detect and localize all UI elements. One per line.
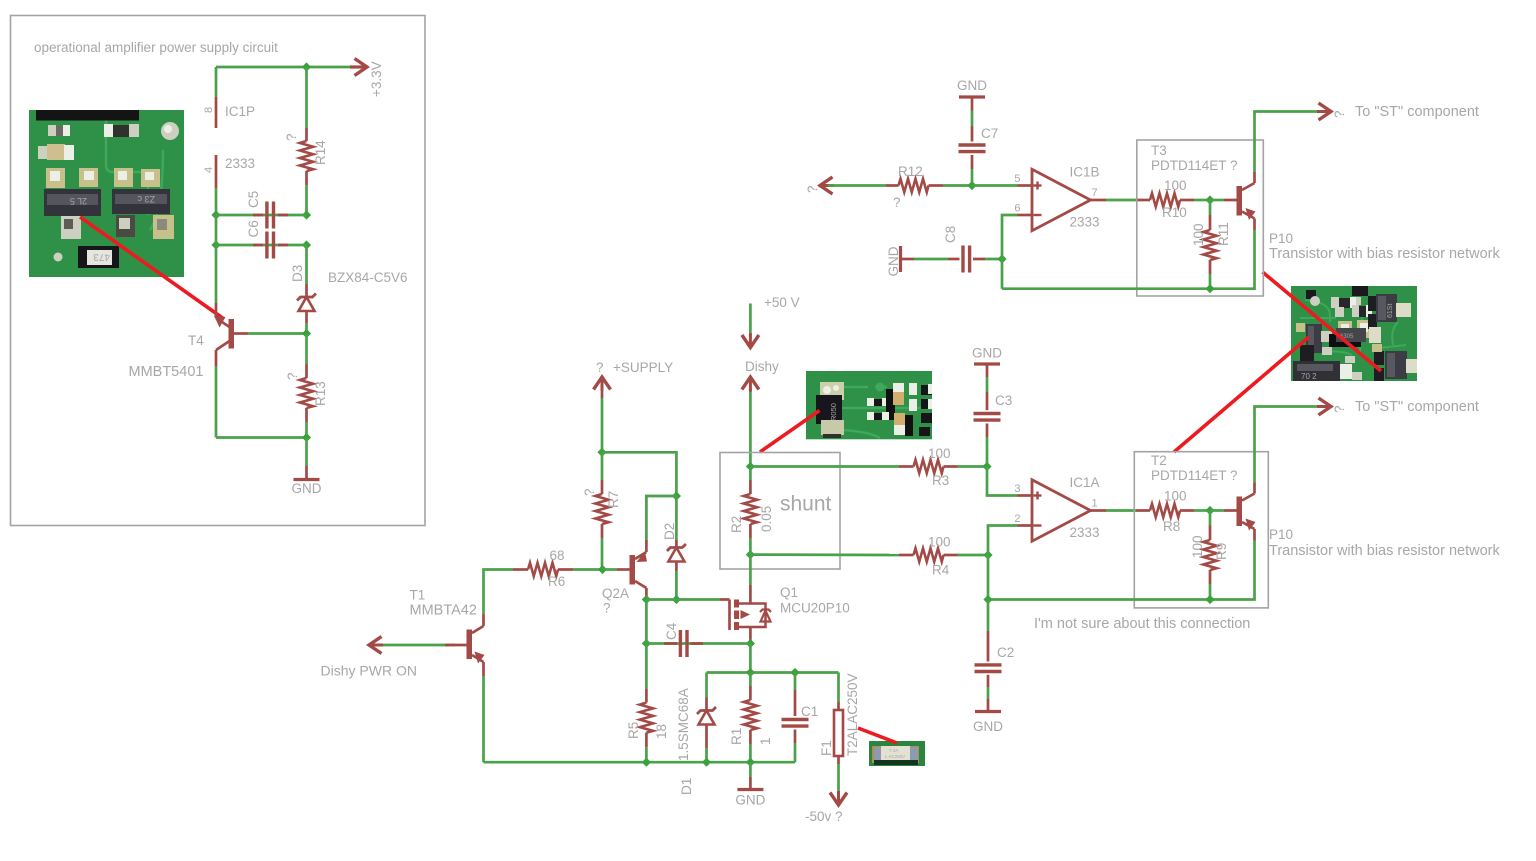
svg-text:D1: D1 — [679, 778, 694, 795]
arrow Dishy up — [742, 377, 759, 391]
red pointer line T2 box to photo4 — [1174, 337, 1309, 452]
wire T2 emitter rail — [988, 541, 1255, 600]
svg-text:3: 3 — [1014, 483, 1020, 495]
op-amp IC1B pin 5 stub — [1018, 184, 1033, 187]
svg-text:T4: T4 — [188, 333, 204, 348]
transistor T2 emitter lead — [1242, 522, 1255, 529]
resistor R8 body — [1150, 504, 1180, 517]
junction bottom rail R1 — [746, 758, 755, 767]
mosfet Q1 substrate arrow — [741, 610, 751, 619]
wire T1 collector to R6 — [484, 570, 514, 615]
fuse F1 body — [834, 710, 843, 756]
wire upper rail — [707, 671, 839, 674]
svg-text:GND: GND — [292, 481, 322, 496]
junction shunt bottom — [746, 550, 755, 559]
svg-text:IC1P: IC1P — [225, 104, 255, 119]
PCB photo inset 2 (shunt resistor R050) — [806, 371, 932, 439]
transistor T2 collector lead — [1242, 494, 1255, 501]
svg-text:6: 6 — [1014, 203, 1020, 215]
svg-text:2: 2 — [1014, 513, 1020, 525]
resistor R12 body — [899, 179, 929, 192]
capacitor C2 leads — [987, 600, 990, 632]
capacitor C5 plates — [265, 202, 268, 229]
wire Dishy PWR ON stub — [378, 644, 455, 647]
svg-text:100: 100 — [1164, 489, 1187, 504]
IC1A plus sign — [1034, 494, 1042, 496]
svg-text:?: ? — [285, 372, 300, 380]
junction C5 right — [302, 210, 311, 219]
resistor R2 leads — [749, 467, 752, 481]
svg-text:Z3 c: Z3 c — [137, 194, 155, 204]
wire T3 collector to ST — [1255, 112, 1321, 173]
svg-text:Dishy: Dishy — [745, 359, 779, 374]
svg-text:-50v ?: -50v ? — [805, 809, 843, 824]
svg-text:T 2A: T 2A — [889, 748, 898, 753]
mosfet Q1 drain-source outline — [739, 604, 766, 628]
svg-text:1: 1 — [1092, 498, 1098, 510]
wire C5 row — [216, 214, 307, 217]
IC1B minus sign — [1034, 214, 1042, 216]
mosfet Q1 gate lead — [720, 598, 730, 601]
ground symbol C2 bottom — [975, 710, 1001, 713]
svg-text:+SUPPLY: +SUPPLY — [613, 360, 673, 375]
svg-text:?: ? — [893, 195, 901, 210]
resistor R1 body — [744, 700, 757, 730]
junction R8 R9 node — [1205, 506, 1214, 515]
svg-text:1.5SMC68A: 1.5SMC68A — [676, 688, 691, 761]
zener diode D3 leads — [305, 245, 308, 284]
svg-text:8: 8 — [203, 107, 215, 113]
wire R4 node to pin2 — [988, 526, 1018, 556]
svg-text:100: 100 — [1190, 535, 1205, 558]
transistor Q2A emitter lead — [635, 552, 646, 559]
svg-text:P10: P10 — [1269, 231, 1293, 246]
svg-text:2333: 2333 — [1070, 215, 1100, 230]
mosfet Q1 body diode — [760, 610, 771, 613]
svg-text:F1: F1 — [819, 740, 834, 756]
wire Q1 source to upper rail — [749, 644, 752, 673]
junction C7 node — [967, 181, 976, 190]
svg-text:P10: P10 — [1269, 527, 1293, 542]
wire bottom of left box — [216, 436, 307, 439]
IC1A minus sign — [1034, 524, 1042, 526]
junction bottom rail D1 — [702, 758, 711, 767]
svg-text:100: 100 — [928, 535, 951, 550]
junction R7 top — [597, 448, 606, 457]
junction upper rail C1 — [790, 668, 799, 677]
svg-text:?: ? — [596, 360, 604, 375]
svg-text:R1: R1 — [729, 728, 744, 745]
red pointer line fuse to photo3 — [858, 728, 897, 743]
capacitor C3 leads — [986, 364, 989, 377]
wire Q2A collector down to C4 — [645, 600, 648, 644]
svg-text:2333: 2333 — [1070, 525, 1100, 540]
svg-text:T1: T1 — [410, 588, 426, 603]
svg-text:C5: C5 — [246, 191, 261, 208]
svg-text:GND: GND — [957, 78, 987, 93]
transistor T3 base bar — [1237, 186, 1243, 216]
junction R4 node — [983, 550, 992, 559]
ground symbol C3 top — [974, 362, 1000, 365]
svg-text:?: ? — [1332, 110, 1347, 118]
wire R6 node to Q2A base — [603, 568, 618, 571]
svg-text:PDTD114ET ?: PDTD114ET ? — [1151, 158, 1238, 173]
ground symbol left box — [294, 478, 320, 481]
red pointer line photo1 to T4 — [80, 217, 224, 319]
capacitor C8 plates — [961, 246, 964, 273]
zener diode D3 symbol — [297, 294, 316, 301]
svg-text:D3: D3 — [290, 265, 305, 282]
svg-text:R3: R3 — [932, 473, 949, 488]
wire R8 node to T2 base — [1210, 509, 1224, 512]
transistor T1 emitter arrow — [475, 652, 485, 664]
annotation box: shunt — [720, 453, 840, 570]
fuse F1 leads — [837, 673, 840, 703]
ground symbol C8 rotated — [899, 246, 902, 272]
svg-text:GND: GND — [972, 346, 1002, 361]
transistor T2 emitter arrow — [1246, 519, 1256, 531]
transistor T4 collector lead — [216, 341, 230, 350]
wire R10 node to T3 base — [1210, 199, 1224, 202]
resistor R10 body — [1150, 193, 1180, 206]
svg-text:?: ? — [805, 185, 820, 193]
svg-text:R5: R5 — [626, 722, 641, 739]
resistor R9 leads — [1209, 511, 1212, 526]
wire T4 base to R13 rail — [248, 332, 307, 335]
capacitor C8 leads — [901, 258, 915, 261]
resistor R11 body — [1203, 230, 1216, 260]
wire T4 emitter drop — [215, 245, 218, 303]
transistor T3 emitter lead — [1242, 212, 1255, 219]
wire C3 node to pin3 — [987, 467, 1018, 496]
junction C6 left — [211, 240, 220, 249]
supply arrow ? +SUPPLY — [594, 377, 611, 391]
svg-text:R6: R6 — [548, 574, 565, 589]
svg-text:C1: C1 — [801, 704, 818, 719]
wire +50V stub — [749, 304, 752, 334]
junction R9 bottom node — [1205, 595, 1214, 604]
transistor T3 emitter arrow — [1246, 208, 1256, 220]
svg-text:R9: R9 — [1214, 543, 1229, 560]
PCB photo inset 1 (transistors T4) — [29, 110, 184, 277]
svg-text:2L 5: 2L 5 — [70, 196, 87, 206]
resistor R10 leads — [1136, 199, 1150, 202]
resistor R7 leads — [601, 452, 604, 480]
zener diode D1 symbol — [697, 707, 716, 714]
wire T1 emitter to bottom rail — [482, 676, 485, 762]
svg-text:L AC250V: L AC250V — [885, 754, 905, 759]
transistor Q2A base bar — [630, 555, 636, 585]
resistor R5 body — [640, 703, 653, 733]
svg-text:GND: GND — [735, 793, 765, 808]
svg-text:4: 4 — [203, 167, 215, 173]
svg-text:?: ? — [603, 601, 611, 616]
svg-text:18: 18 — [654, 724, 669, 739]
capacitor C7 plates — [959, 143, 986, 146]
wire cap rail left vertical — [215, 215, 218, 245]
wire C4 row — [646, 642, 750, 645]
wire to GND left box — [305, 438, 308, 467]
resistor R7 body — [595, 494, 608, 524]
junction shunt top — [746, 462, 755, 471]
capacitor C7 leads — [971, 97, 974, 111]
svg-text:1: 1 — [758, 737, 773, 745]
junction C8 node — [997, 254, 1006, 263]
svg-text:Transistor with bias resistor: Transistor with bias resistor network — [1269, 246, 1500, 262]
svg-text:C4: C4 — [664, 622, 679, 640]
op-amp IC1B output stub — [1091, 199, 1107, 202]
svg-text:GND: GND — [973, 719, 1003, 734]
transistor T1 emitter lead — [472, 655, 484, 662]
junction C6 right — [302, 240, 311, 249]
svg-text:T3: T3 — [1151, 143, 1167, 158]
junction bottom rail R5 — [642, 758, 651, 767]
ground symbol C7 top — [959, 95, 985, 98]
IC1B plus sign — [1034, 184, 1042, 186]
svg-text:D2: D2 — [662, 523, 677, 540]
resistor R8 leads — [1136, 509, 1150, 512]
resistor R14 leads — [305, 67, 308, 128]
svg-text:To "ST" component: To "ST" component — [1355, 104, 1479, 120]
resistor R12 leads — [828, 184, 886, 187]
svg-text:Transistor with bias resistor: Transistor with bias resistor network — [1269, 543, 1500, 559]
wire C8 node to feedback rail — [1001, 259, 1004, 289]
mosfet Q1 gate bar — [728, 600, 731, 631]
transistor Q2A collector lead — [635, 581, 646, 588]
svg-text:C2: C2 — [997, 645, 1014, 660]
wire T3 emitter rail — [1002, 230, 1255, 289]
svg-text:PDTD114ET ?: PDTD114ET ? — [1151, 468, 1238, 483]
capacitor C3 plates — [974, 412, 1001, 415]
svg-text:2333: 2333 — [225, 156, 255, 171]
junction C5 left — [211, 210, 220, 219]
node junction on 3.3V rail — [302, 62, 311, 71]
transistor T1 collector lead — [472, 626, 484, 633]
svg-text:Dishy PWR ON: Dishy PWR ON — [321, 663, 417, 679]
svg-text:To "ST" component: To "ST" component — [1355, 399, 1479, 415]
svg-text:473: 473 — [93, 251, 110, 262]
wire Q2A emitter up — [646, 496, 676, 540]
svg-text:R7: R7 — [606, 491, 621, 508]
wire bottom rail — [484, 761, 796, 764]
svg-text:IC1A: IC1A — [1070, 475, 1100, 490]
svg-text:0.05: 0.05 — [759, 506, 774, 532]
svg-text:+3.3V: +3.3V — [369, 61, 384, 97]
junction R6 R7 node — [598, 565, 607, 574]
arrow To ST top — [1317, 103, 1331, 120]
resistor R3 body — [914, 460, 944, 473]
svg-text:61St: 61St — [1387, 304, 1394, 318]
svg-text:100: 100 — [928, 446, 951, 461]
arrow R12 left ? — [820, 177, 834, 194]
svg-text:R050: R050 — [829, 403, 838, 421]
wire shunt top to R3 — [750, 465, 899, 468]
svg-text:R4: R4 — [932, 563, 950, 578]
transistor T1 base lead — [455, 644, 467, 647]
junction C3 node — [982, 462, 991, 471]
wire R4 node down to C2 rail — [987, 555, 990, 600]
mosfet Q1 channel bars — [734, 600, 739, 608]
zener diode D2 symbol — [667, 544, 686, 551]
svg-text:R8: R8 — [1163, 519, 1180, 534]
PCB photo inset 4 (transistor network) — [1291, 286, 1417, 381]
svg-text:Q1: Q1 — [780, 585, 798, 600]
wire supply drop — [601, 389, 604, 398]
wire shunt bottom to R4 — [750, 553, 899, 556]
wire shunt to Q1 — [749, 555, 752, 585]
capacitor C1 plates — [782, 718, 809, 721]
resistor R3 leads — [899, 465, 914, 468]
wire C8 node to pin6 — [1002, 215, 1018, 259]
pin 8 of IC1P — [215, 97, 218, 128]
resistor R14 body — [300, 141, 313, 171]
junction Q2A collector node — [642, 595, 651, 604]
junction T4 base node — [302, 329, 311, 338]
transistor T4 emitter lead — [215, 303, 218, 318]
junction D2 bottom node — [672, 595, 681, 604]
junction C4 right — [746, 639, 755, 648]
wire Dishy to shunt — [749, 389, 752, 392]
svg-text:100: 100 — [1164, 178, 1187, 193]
svg-text:C7: C7 — [981, 126, 998, 141]
PCB photo inset 3 (fuse) — [869, 741, 925, 766]
transistor T1 base bar — [467, 630, 473, 660]
ground symbol bottom — [737, 788, 763, 791]
wire C7 node to pin5 — [972, 184, 1018, 187]
junction R10 R11 node — [1205, 195, 1214, 204]
svg-text:C3: C3 — [995, 393, 1012, 408]
svg-text:?: ? — [582, 488, 597, 496]
svg-text:5: 5 — [1014, 173, 1020, 185]
capacitor C4 plates — [679, 630, 682, 657]
mosfet Q1 source lead — [749, 627, 752, 644]
svg-text:+50 V: +50 V — [764, 295, 800, 310]
svg-text:T2: T2 — [1151, 453, 1167, 468]
svg-text:T2ALAC250V: T2ALAC250V — [845, 673, 860, 756]
T2 box annotation — [1134, 452, 1268, 608]
transistor T3 collector lead — [1242, 183, 1255, 190]
op-amp IC1A output stub — [1091, 509, 1107, 512]
op-amp IC1B pin 6 stub — [1018, 214, 1033, 217]
capacitor C6 plates — [265, 232, 268, 259]
wire IC1B output to R10 — [1106, 199, 1136, 202]
arrow +3.3V — [353, 59, 367, 76]
junction D2 top node — [672, 491, 681, 500]
svg-text:IC1B: IC1B — [1070, 165, 1100, 180]
svg-text:R2: R2 — [729, 516, 744, 533]
junction R11 bottom node — [1205, 284, 1214, 293]
wire T4 collector down — [215, 366, 218, 438]
capacitor C2 plates — [975, 663, 1002, 666]
resistor R13 leads — [305, 334, 308, 365]
arrow To ST bottom — [1317, 398, 1331, 415]
pin 4 of IC1P — [215, 155, 218, 188]
wire gate rail — [646, 598, 720, 601]
arrow -50v down — [830, 791, 847, 805]
svg-text:MCU20P10: MCU20P10 — [780, 601, 850, 616]
svg-text:operational amplifier power su: operational amplifier power supply circu… — [34, 40, 278, 55]
zener diode D2 leads — [675, 496, 678, 540]
arrow Dishy PWR ON — [369, 637, 383, 654]
arrow +50V down — [742, 334, 759, 348]
zener diode D1 leads — [705, 673, 708, 698]
resistor R9 body — [1203, 540, 1216, 570]
svg-text:?: ? — [284, 133, 299, 141]
resistor R6 leads — [513, 568, 528, 571]
T3 box annotation — [1137, 140, 1264, 296]
svg-text:R12: R12 — [898, 164, 923, 179]
wire pin4 to C5 rail — [215, 188, 218, 215]
resistor R6 body — [528, 563, 558, 576]
resistor R5 leads — [645, 644, 648, 689]
svg-text:GND: GND — [886, 246, 901, 276]
transistor T4 emitter arrow — [214, 316, 226, 328]
ground lead bottom — [749, 762, 752, 777]
svg-text:BZX84-C5V6: BZX84-C5V6 — [328, 270, 408, 285]
resistor R4 leads — [899, 554, 914, 557]
junction R13 bottom — [302, 433, 311, 442]
wire IC1A output to R8 — [1106, 509, 1136, 512]
svg-text:R10: R10 — [1162, 205, 1187, 220]
resistor R1 leads — [749, 673, 752, 687]
svg-text:68: 68 — [550, 548, 565, 563]
junction upper rail R1 — [746, 668, 755, 677]
svg-text:Q2A: Q2A — [602, 586, 629, 601]
op-amp IC1A pin 3 stub — [1018, 494, 1033, 497]
svg-text:C8: C8 — [943, 226, 958, 243]
resistor R13 body — [300, 378, 313, 408]
svg-text:7: 7 — [1092, 187, 1098, 199]
svg-text:C6: C6 — [246, 220, 261, 237]
svg-text:100: 100 — [1191, 223, 1206, 246]
wire C6 row — [216, 244, 307, 247]
capacitor C1 leads — [794, 673, 797, 691]
wire IC1P pin 8 drop — [215, 67, 218, 97]
svg-text:?: ? — [1332, 405, 1347, 413]
svg-text:70 2: 70 2 — [1301, 372, 1317, 381]
junction C2 rail node — [983, 595, 992, 604]
resistor R2 body — [744, 494, 757, 524]
op-amp IC1B triangle — [1032, 169, 1091, 230]
resistor R4 body — [914, 548, 944, 561]
svg-text:shunt: shunt — [780, 493, 832, 516]
annotation box: op-amp power supply circuit — [11, 16, 426, 526]
junction C4 left — [642, 639, 651, 648]
resistor R11 leads — [1209, 200, 1212, 215]
svg-text:R11: R11 — [1216, 222, 1231, 246]
transistor T4 base lead — [234, 332, 248, 335]
transistor Q2A emitter arrow — [637, 552, 648, 563]
ground lead left box — [305, 466, 308, 480]
svg-text:R13: R13 — [313, 381, 328, 406]
svg-text:MMBT5401: MMBT5401 — [129, 364, 204, 380]
wire T2 collector to ST — [1255, 407, 1321, 483]
op-amp IC1A pin 2 stub — [1018, 524, 1033, 527]
svg-text:MMBTA42: MMBTA42 — [410, 603, 477, 619]
svg-text:I'm not sure about this connec: I'm not sure about this connection — [1034, 616, 1250, 632]
transistor T2 base bar — [1237, 497, 1243, 527]
svg-text:R14: R14 — [313, 140, 328, 165]
wire +3.3V rail — [216, 66, 350, 69]
red pointer line T3 box to photo4 — [1263, 272, 1382, 371]
op-amp IC1A triangle — [1032, 480, 1091, 541]
wire supply to D2 branch — [602, 452, 676, 496]
red pointer line photo2 to shunt box — [760, 411, 820, 453]
transistor T4 base bar — [229, 319, 235, 349]
